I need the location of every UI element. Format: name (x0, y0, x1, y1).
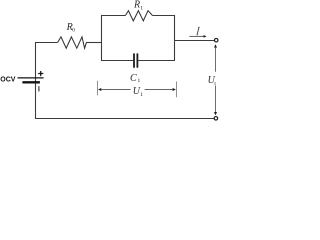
resistor R1 (125, 11, 152, 21)
node right edge of RC block (174, 15, 176, 61)
dimension U1 right tick (176, 82, 178, 98)
battery negative plate (thick short) (22, 81, 40, 83)
dimension U1 line right (145, 89, 173, 91)
battery plus sign (38, 71, 43, 76)
label I (197, 28, 199, 35)
svg-text:0: 0 (72, 27, 75, 33)
wire bottom edge left segment (101, 60, 133, 62)
svg-text:1: 1 (140, 92, 143, 98)
battery positive plate (thin long) (18, 77, 44, 79)
voltage arrow Ut line lower (215, 86, 217, 113)
svg-text:OCV: OCV (0, 76, 16, 83)
node left edge of RC block (101, 15, 103, 61)
wire output to top terminal (174, 40, 214, 42)
svg-text:C: C (130, 73, 137, 84)
wire top-left horizontal to resistor Rb (35, 42, 58, 44)
dimension U1 left tick (97, 81, 99, 95)
dimension U1 left arrowhead (98, 88, 101, 91)
voltage arrow Ut (up head) (214, 44, 217, 47)
capacitor C1 right plate (136, 53, 138, 67)
capacitor C1 left plate (133, 53, 135, 67)
svg-text:1: 1 (140, 6, 143, 12)
wire top edge left segment (101, 15, 125, 17)
terminal top-right (214, 38, 218, 42)
svg-text:1: 1 (138, 78, 141, 84)
resistor Rb (58, 37, 87, 48)
terminal bottom-right (214, 117, 218, 121)
battery minus tick (38, 86, 40, 91)
dimension U1 right arrowhead (173, 88, 176, 91)
wire bottom edge right segment (138, 60, 175, 62)
wire top edge right segment (153, 15, 176, 17)
dimension U1 line left (101, 89, 131, 91)
voltage arrow Ut line upper (215, 47, 217, 72)
wire Rb to parallel block (86, 42, 102, 44)
voltage arrow Ut (down head) (214, 112, 217, 115)
current arrow I (189, 35, 203, 37)
wire bottom horizontal (35, 118, 214, 120)
wire left vertical (battery branch) (35, 43, 37, 119)
svg-text:R: R (133, 0, 140, 11)
